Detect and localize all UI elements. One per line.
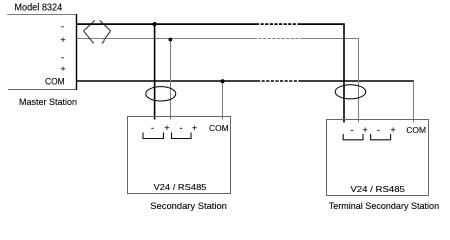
node dot on bus A at first drop — [153, 22, 157, 26]
secondary station U2 box — [128, 117, 231, 194]
master station U1 box — [7, 14, 76, 90]
twisted pair symbol (diamond) on master leads — [84, 20, 111, 43]
wire drop A to secondary station — [154, 24, 156, 119]
svg-text:-: - — [351, 125, 354, 135]
svg-text:-: - — [61, 22, 64, 32]
svg-text:Secondary Station: Secondary Station — [150, 201, 227, 212]
wire bus COM corner drop to terminal station — [413, 81, 415, 123]
svg-text:-: - — [180, 123, 183, 133]
svg-text:+: + — [362, 125, 367, 135]
terminal secondary station U3 box — [327, 120, 429, 196]
svg-text:Terminal Secondary Station: Terminal Secondary Station — [329, 201, 439, 212]
svg-text:+: + — [192, 123, 197, 133]
svg-text:-: - — [61, 53, 64, 63]
wire drop COM to secondary station — [222, 81, 224, 120]
svg-text:V24 / RS485: V24 / RS485 — [350, 184, 405, 194]
U3 terminal pair bracket 2 — [371, 134, 391, 140]
wire bus COM horizontal — [77, 80, 415, 82]
svg-text:COM: COM — [45, 77, 65, 87]
U2 terminal pair bracket 2 — [172, 133, 192, 139]
wire bus B (data +) horizontal — [77, 38, 360, 40]
svg-text:+: + — [164, 123, 169, 133]
svg-text:COM: COM — [209, 123, 229, 133]
svg-text:+: + — [60, 64, 65, 74]
svg-text:COM: COM — [406, 125, 426, 135]
svg-text:+: + — [390, 125, 395, 135]
U2 terminal pair bracket 1 — [143, 133, 164, 139]
node dot on bus B at first drop — [169, 38, 173, 42]
wire drop B to secondary station — [170, 39, 172, 120]
svg-text:+: + — [60, 35, 65, 45]
svg-text:-: - — [151, 123, 154, 133]
svg-text:Model 8324: Model 8324 — [14, 3, 62, 14]
cable bundle ellipse at secondary station — [146, 87, 176, 101]
wire bus A (data -) horizontal — [77, 23, 345, 25]
cable bundle ellipse at terminal station — [335, 85, 366, 99]
wire bus A corner drop to terminal station — [343, 24, 345, 122]
U3 terminal pair bracket 1 — [343, 134, 363, 140]
svg-text:Master Station: Master Station — [19, 97, 77, 108]
svg-text:V24 / RS485: V24 / RS485 — [154, 182, 207, 192]
node dot on bus COM at first drop — [221, 79, 225, 83]
wire bus B corner drop to terminal station — [358, 39, 360, 123]
svg-text:-: - — [377, 125, 380, 135]
